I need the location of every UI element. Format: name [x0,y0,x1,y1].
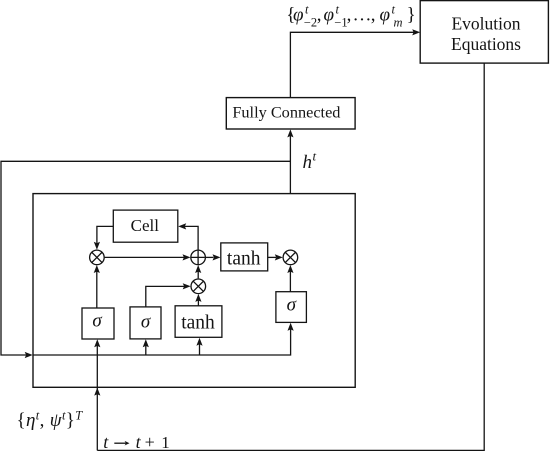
wire input vertical from t line up through LSTM bottom edge to sigma left with arrows [94,339,100,450]
svg-text:tanh: tanh [227,249,261,270]
wire plus node up and left into Cell with arrow [178,223,198,249]
wire Cell left edge down to xL multiply with down arrow [94,226,114,249]
wire xL multiply to plus with arrow [105,254,191,260]
wire plus to tanh upper with arrow [206,254,221,260]
box Cell [113,210,178,242]
wire Evolution bottom down to t line and left to input vertical [97,63,484,450]
svg-text:σ: σ [287,295,297,316]
wire xR multiply up to Fully Connected with arrow [287,129,293,249]
node multiply xL [90,250,105,265]
box sigma mid [130,307,161,339]
svg-text:Equations: Equations [451,34,521,54]
wire riser to sigma mid with arrow [143,339,149,355]
box sigma left [82,308,114,339]
wire sigma right up to xR multiply with arrow [287,265,293,292]
wire tanh lower up to xM multiply with arrow [195,294,201,306]
wire sigma mid hook right to xM multiply with arrow [146,283,191,307]
box LSTM outer [33,194,355,388]
box Fully Connected [226,98,355,129]
box Evolution Equations [420,1,548,64]
wire tanh upper to xR multiply with arrow [268,254,283,260]
wire xM multiply up to plus with arrow [195,265,201,278]
box tanh lower [175,306,222,338]
svg-text:Cell: Cell [131,216,160,235]
svg-text:{ηt, ψt}T: {ηt, ψt}T [17,408,84,431]
box sigma right [276,292,307,323]
node multiply xR [283,250,298,265]
wire h^t feedback: horizontal line, left edge down, arrow into LSTM box [1,161,290,358]
node plus [191,250,206,265]
svg-text:Evolution: Evolution [451,14,520,34]
label t to t+1 [103,432,170,452]
wire Fully Connected top to Evolution Equations with right arrow [290,29,420,97]
svg-text:tanh: tanh [181,312,215,333]
label eta psi input [17,408,84,431]
label phi set [286,3,416,30]
svg-text:σ: σ [92,311,102,332]
node multiply xM [191,279,206,294]
wire distribution line inside LSTM with riser arrow to sigma right [33,323,294,355]
wire riser to tanh lower with arrow [196,338,202,355]
box tanh upper [221,243,268,271]
svg-text:Fully Connected: Fully Connected [232,102,340,121]
label h^t [303,149,317,173]
wire sigma left up to xL multiply with arrow [94,265,100,308]
svg-text:σ: σ [141,311,151,332]
